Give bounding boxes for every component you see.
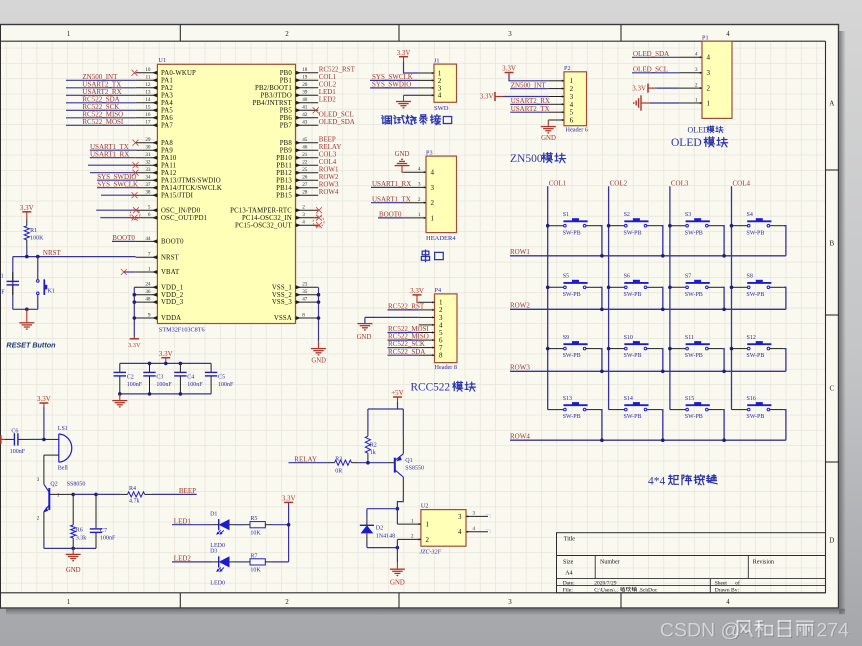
svg-text:U1: U1	[158, 57, 166, 64]
svg-text:PB1: PB1	[280, 77, 292, 84]
svg-text:U2: U2	[421, 503, 429, 510]
svg-text:P4: P4	[435, 287, 442, 294]
svg-text:C4: C4	[187, 375, 194, 381]
svg-text:PC13-TAMPER-RTC: PC13-TAMPER-RTC	[230, 207, 292, 214]
svg-text:Header 6: Header 6	[565, 127, 588, 134]
svg-text:2: 2	[285, 598, 289, 606]
svg-text:4: 4	[431, 169, 435, 177]
svg-text:OLED: OLED	[671, 137, 702, 149]
svg-text:S10: S10	[624, 335, 633, 341]
svg-text:4: 4	[302, 220, 305, 226]
svg-text:LS1: LS1	[58, 426, 68, 432]
svg-text:BOOT0: BOOT0	[161, 239, 184, 246]
svg-text:3: 3	[707, 69, 711, 77]
svg-text:10K: 10K	[250, 530, 261, 536]
svg-text:File:: File:	[563, 588, 574, 594]
svg-text:PA11: PA11	[161, 162, 176, 169]
svg-text:22: 22	[302, 160, 308, 166]
svg-text:PB0: PB0	[280, 70, 293, 77]
svg-text:P2: P2	[564, 65, 571, 72]
svg-text:3: 3	[458, 513, 462, 521]
svg-text:8: 8	[302, 312, 305, 318]
svg-text:C3: C3	[156, 375, 163, 381]
svg-text:GND: GND	[390, 580, 405, 587]
svg-text:PB14: PB14	[276, 185, 292, 192]
svg-text:SW-PB: SW-PB	[685, 292, 703, 298]
svg-text:USART1_TX: USART1_TX	[372, 195, 411, 203]
svg-text:A4: A4	[565, 571, 572, 577]
svg-text:PC15-OSC32_OUT: PC15-OSC32_OUT	[235, 222, 293, 229]
svg-text:2: 2	[707, 85, 711, 93]
svg-text:C1: C1	[0, 273, 4, 279]
svg-text:SW-PB: SW-PB	[746, 292, 764, 298]
svg-text:ROW4: ROW4	[510, 433, 530, 441]
svg-text:USART1_RX: USART1_RX	[372, 180, 411, 188]
svg-text:USART2_TX: USART2_TX	[511, 105, 550, 113]
svg-text:7: 7	[148, 252, 151, 258]
svg-text:42: 42	[302, 112, 308, 118]
svg-text:USART2_RX: USART2_RX	[511, 97, 550, 105]
svg-text:4: 4	[570, 101, 574, 109]
svg-text:VDD_3: VDD_3	[161, 299, 184, 306]
svg-text:45: 45	[302, 137, 308, 143]
svg-text:4: 4	[707, 54, 711, 62]
svg-text:BOOT0: BOOT0	[379, 211, 402, 219]
svg-text:GND: GND	[541, 135, 556, 142]
svg-text:46: 46	[302, 145, 308, 151]
svg-text:3: 3	[302, 212, 305, 218]
svg-text:VDDA: VDDA	[161, 315, 181, 322]
svg-text:C5: C5	[218, 375, 225, 381]
svg-text:3: 3	[431, 184, 435, 192]
svg-text:1: 1	[707, 99, 711, 107]
svg-text:1k: 1k	[370, 450, 376, 456]
svg-text:GND: GND	[357, 334, 372, 341]
svg-text:0R: 0R	[335, 468, 342, 474]
svg-text:13: 13	[145, 90, 151, 96]
svg-text:VSSA: VSSA	[274, 315, 292, 322]
svg-text:26: 26	[302, 175, 308, 181]
svg-text:OLED_SCL: OLED_SCL	[633, 65, 668, 73]
svg-text:D2: D2	[376, 525, 383, 531]
svg-text:2: 2	[285, 30, 289, 38]
svg-text:30: 30	[145, 145, 151, 151]
svg-text:18: 18	[302, 67, 308, 73]
svg-text:PA10: PA10	[161, 155, 177, 162]
svg-text:BEEP: BEEP	[179, 487, 196, 495]
svg-text:PB13: PB13	[276, 177, 292, 184]
svg-text:5: 5	[570, 109, 574, 117]
svg-text:25: 25	[302, 167, 308, 173]
svg-text:Bell: Bell	[58, 465, 68, 471]
svg-text:RC522_MOSI: RC522_MOSI	[82, 118, 124, 126]
svg-text:S3: S3	[685, 212, 691, 218]
svg-text:S13: S13	[563, 396, 572, 402]
svg-text:PB7: PB7	[280, 122, 293, 129]
svg-text:3.3k: 3.3k	[76, 535, 87, 541]
svg-text:+5V: +5V	[391, 389, 404, 397]
svg-text:C:\Users\..: C:\Users\..	[594, 588, 618, 594]
svg-text:15: 15	[145, 105, 151, 111]
svg-text:32: 32	[145, 160, 151, 166]
svg-text:3: 3	[570, 93, 574, 101]
svg-text:6: 6	[148, 212, 151, 218]
svg-text:PA4: PA4	[161, 100, 173, 107]
svg-text:S1: S1	[563, 212, 569, 218]
svg-text:of: of	[735, 580, 740, 587]
svg-text:29: 29	[145, 137, 151, 143]
svg-text:4: 4	[458, 528, 462, 536]
svg-text:3.3V: 3.3V	[159, 350, 173, 358]
svg-text:100nF: 100nF	[127, 382, 143, 388]
svg-text:PB8: PB8	[280, 140, 293, 147]
svg-text:44: 44	[145, 236, 151, 242]
svg-text:PB9: PB9	[280, 147, 293, 154]
svg-text:4.7k: 4.7k	[129, 498, 140, 504]
svg-text:Q2: Q2	[50, 481, 57, 487]
svg-text:S5: S5	[563, 274, 569, 280]
svg-text:SYS_SWCLK: SYS_SWCLK	[97, 180, 138, 188]
svg-text:NRST: NRST	[161, 254, 180, 261]
svg-text:100nF: 100nF	[187, 382, 203, 388]
svg-text:SW-PB: SW-PB	[685, 414, 703, 420]
svg-text:PB11: PB11	[276, 162, 291, 169]
svg-text:100nF: 100nF	[10, 449, 26, 455]
svg-text:SW-PB: SW-PB	[685, 230, 703, 236]
svg-text:C2: C2	[127, 375, 134, 381]
svg-text:S9: S9	[563, 335, 569, 341]
svg-text:VDD_1: VDD_1	[161, 284, 183, 291]
svg-text:S2: S2	[624, 212, 630, 218]
svg-text:J1: J1	[434, 57, 440, 64]
svg-text:COL2: COL2	[610, 179, 628, 187]
svg-text:2: 2	[302, 205, 305, 211]
svg-text:1: 1	[67, 30, 71, 38]
svg-text:23: 23	[302, 282, 308, 288]
svg-text:S15: S15	[685, 396, 694, 402]
svg-text:34: 34	[145, 175, 151, 181]
svg-text:3.3V: 3.3V	[502, 65, 516, 73]
svg-text:GND: GND	[395, 151, 410, 158]
svg-text:100K: 100K	[30, 236, 44, 242]
svg-text:PB4/JNTRST: PB4/JNTRST	[253, 100, 293, 107]
svg-text:1: 1	[431, 214, 435, 222]
svg-text:PB3/JTDO: PB3/JTDO	[260, 92, 291, 99]
svg-text:11: 11	[146, 75, 151, 81]
svg-text:D: D	[829, 536, 834, 544]
svg-text:PB10: PB10	[276, 155, 292, 162]
svg-text:43: 43	[302, 120, 308, 126]
svg-text:3.3V: 3.3V	[37, 395, 51, 403]
svg-text:SW-PB: SW-PB	[746, 353, 764, 359]
svg-text:3.3V: 3.3V	[20, 204, 34, 212]
svg-text:ZN500: ZN500	[510, 153, 543, 165]
svg-text:Date:: Date:	[563, 581, 575, 587]
svg-text:SS8050: SS8050	[67, 481, 86, 487]
svg-text:SW-PB: SW-PB	[563, 353, 581, 359]
svg-text:VSS_3: VSS_3	[272, 299, 292, 306]
svg-text:S14: S14	[624, 396, 633, 402]
svg-text:24: 24	[145, 282, 151, 288]
svg-text:RCC522: RCC522	[411, 382, 451, 394]
svg-text:6: 6	[570, 117, 574, 125]
svg-text:Drawn By:: Drawn By:	[715, 588, 740, 594]
svg-text:100nF: 100nF	[100, 535, 116, 541]
svg-text:OSC_IN/PD0: OSC_IN/PD0	[161, 207, 201, 214]
svg-text:41: 41	[302, 105, 308, 111]
svg-text:OLED_SDA: OLED_SDA	[319, 118, 355, 126]
svg-text:PA1: PA1	[161, 77, 173, 84]
svg-text:D3: D3	[210, 549, 217, 555]
svg-text:PC14-OSC32_IN: PC14-OSC32_IN	[242, 215, 292, 222]
svg-text:RC522_SDA: RC522_SDA	[388, 348, 425, 356]
svg-text:3: 3	[508, 598, 512, 606]
svg-text:274: 274	[817, 619, 850, 641]
svg-text:38: 38	[145, 190, 151, 196]
svg-text:R5: R5	[250, 516, 257, 522]
svg-text:1: 1	[67, 598, 71, 606]
svg-text:C7: C7	[100, 528, 107, 534]
svg-text:LED2: LED2	[319, 95, 337, 103]
svg-text:3.3V: 3.3V	[397, 49, 411, 57]
svg-text:31: 31	[145, 152, 151, 158]
svg-text:PA7: PA7	[161, 122, 173, 129]
svg-text:VSS_2: VSS_2	[272, 292, 292, 299]
svg-text:PA5: PA5	[161, 107, 173, 114]
svg-text:VSS_1: VSS_1	[272, 284, 292, 291]
svg-text:3.3V: 3.3V	[480, 93, 494, 101]
svg-text:R3: R3	[335, 457, 342, 463]
svg-text:PA3: PA3	[161, 92, 173, 99]
svg-text:Header 8: Header 8	[435, 364, 458, 371]
svg-text:20: 20	[302, 82, 308, 88]
svg-text:Title: Title	[564, 536, 575, 542]
svg-text:PA15/JTDI: PA15/JTDI	[161, 192, 194, 199]
svg-text:21: 21	[302, 152, 308, 158]
svg-text:PA0-WKUP: PA0-WKUP	[161, 70, 196, 77]
svg-text:100nF: 100nF	[218, 382, 234, 388]
svg-text:RC522_RST: RC522_RST	[388, 303, 425, 311]
svg-text:B: B	[829, 239, 834, 247]
svg-text:2: 2	[426, 536, 430, 544]
svg-text:SW-PB: SW-PB	[746, 414, 764, 420]
svg-text:LED0: LED0	[210, 580, 225, 586]
svg-text:RELAY: RELAY	[294, 455, 317, 463]
svg-text:3: 3	[508, 30, 512, 38]
svg-text:PA13/JTMS/SWDIO: PA13/JTMS/SWDIO	[161, 177, 221, 184]
svg-text:33: 33	[145, 167, 151, 173]
svg-text:A: A	[829, 99, 834, 107]
svg-text:ROW3: ROW3	[510, 364, 530, 372]
svg-text:2: 2	[431, 199, 435, 207]
svg-text:SW-PB: SW-PB	[563, 292, 581, 298]
svg-text:R7: R7	[250, 553, 257, 559]
svg-text:STM32F103C8T6: STM32F103C8T6	[159, 327, 205, 334]
svg-text:S16: S16	[747, 396, 756, 402]
svg-text:48: 48	[145, 297, 151, 303]
svg-text:12: 12	[145, 82, 151, 88]
svg-text:COL1: COL1	[549, 179, 567, 187]
svg-text:PB6: PB6	[280, 115, 293, 122]
svg-text:SW-PB: SW-PB	[746, 230, 764, 236]
svg-text:LED2: LED2	[174, 555, 192, 563]
svg-text:Size: Size	[563, 559, 574, 565]
svg-text:R6: R6	[76, 527, 83, 533]
svg-text:5: 5	[148, 205, 151, 211]
svg-text:4: 4	[726, 30, 730, 38]
svg-text:R4: R4	[129, 486, 136, 492]
svg-text:SS8550: SS8550	[405, 465, 424, 471]
svg-text:1: 1	[426, 521, 430, 529]
svg-text:27: 27	[302, 182, 308, 188]
svg-text:SW-PB: SW-PB	[685, 353, 703, 359]
svg-text:D1: D1	[210, 512, 217, 518]
svg-text:P3: P3	[426, 149, 433, 156]
svg-text:PB15: PB15	[276, 192, 292, 199]
svg-text:4*4: 4*4	[648, 475, 666, 487]
svg-text:S4: S4	[747, 212, 753, 218]
svg-text:OLED: OLED	[688, 125, 710, 134]
svg-text:SW-PB: SW-PB	[624, 353, 642, 359]
svg-text:S11: S11	[685, 335, 694, 341]
svg-text:K1: K1	[48, 288, 55, 294]
svg-text:28: 28	[302, 190, 308, 196]
svg-text:PB5: PB5	[280, 107, 293, 114]
svg-text:PA14/JTCK/SWCLK: PA14/JTCK/SWCLK	[161, 185, 222, 192]
svg-text:JZC-32F: JZC-32F	[420, 550, 442, 556]
svg-text:R1: R1	[30, 228, 37, 234]
svg-text:OLED_SDA: OLED_SDA	[633, 50, 669, 58]
svg-text:OSC_OUT/PD1: OSC_OUT/PD1	[161, 215, 207, 222]
svg-text:3.3V: 3.3V	[282, 495, 296, 503]
svg-text:SW-PB: SW-PB	[624, 292, 642, 298]
svg-text:ZN500_INT: ZN500_INT	[511, 81, 547, 89]
svg-text:2: 2	[570, 85, 574, 93]
svg-text:Sheet: Sheet	[715, 581, 728, 587]
svg-text:PB12: PB12	[276, 170, 292, 177]
svg-text:2020/7/29: 2020/7/29	[594, 581, 617, 587]
svg-text:NRST: NRST	[43, 249, 62, 257]
svg-text:ROW1: ROW1	[510, 248, 530, 256]
svg-text:P1: P1	[702, 35, 709, 42]
svg-text:3.3V: 3.3V	[410, 287, 424, 295]
svg-text:SYS_SWDIO: SYS_SWDIO	[372, 81, 411, 89]
svg-text:S12: S12	[747, 335, 756, 341]
svg-text:SW-PB: SW-PB	[563, 414, 581, 420]
svg-text:C: C	[829, 384, 834, 392]
svg-text:37: 37	[145, 182, 151, 188]
svg-text:VDD_2: VDD_2	[161, 292, 184, 299]
svg-text:1: 1	[570, 77, 574, 85]
svg-text:COL4: COL4	[733, 179, 751, 187]
svg-text:PA2: PA2	[161, 85, 173, 92]
svg-text:COL3: COL3	[671, 179, 689, 187]
svg-text:.SchDoc: .SchDoc	[639, 588, 658, 594]
svg-text:19: 19	[302, 75, 308, 81]
svg-text:S6: S6	[624, 274, 630, 280]
svg-text:PA9: PA9	[161, 147, 173, 154]
svg-text:36: 36	[145, 289, 151, 295]
svg-text:SWD: SWD	[434, 105, 449, 112]
svg-text:PA12: PA12	[161, 170, 177, 177]
svg-text:10K: 10K	[250, 568, 261, 574]
svg-text:ROW2: ROW2	[510, 302, 530, 310]
svg-text:GND: GND	[66, 567, 81, 574]
svg-text:BOOT0: BOOT0	[112, 234, 135, 242]
svg-text:SW-PB: SW-PB	[624, 414, 642, 420]
svg-text:RESET Button: RESET Button	[6, 341, 56, 350]
svg-text:C6: C6	[11, 428, 18, 434]
svg-text:47: 47	[302, 297, 308, 303]
svg-text:S7: S7	[685, 274, 691, 280]
svg-text:PB2/BOOT1: PB2/BOOT1	[255, 85, 292, 92]
svg-text:100nF: 100nF	[0, 289, 5, 295]
svg-text:10: 10	[145, 67, 151, 73]
svg-text:3.3V: 3.3V	[128, 342, 141, 349]
svg-text:8: 8	[439, 352, 443, 360]
svg-text:LED1: LED1	[174, 517, 192, 525]
svg-text:SW-PB: SW-PB	[624, 230, 642, 236]
svg-text:100nF: 100nF	[156, 382, 172, 388]
svg-text:CSDN @: CSDN @	[660, 619, 740, 641]
svg-text:Q1: Q1	[405, 458, 412, 464]
svg-text:40: 40	[302, 97, 308, 103]
svg-text:39: 39	[302, 90, 308, 96]
svg-text:16: 16	[145, 112, 151, 118]
svg-text:S8: S8	[747, 274, 753, 280]
svg-text:Revision: Revision	[753, 559, 774, 565]
svg-text:ROW4: ROW4	[319, 188, 339, 196]
svg-text:35: 35	[302, 289, 308, 295]
svg-text:4: 4	[726, 598, 730, 606]
svg-text:Number: Number	[600, 559, 620, 565]
svg-text:4: 4	[438, 92, 442, 100]
svg-text:1N4148: 1N4148	[376, 533, 395, 539]
svg-text:HEADER4: HEADER4	[426, 235, 456, 242]
svg-text:1: 1	[148, 266, 151, 272]
svg-text:SW-PB: SW-PB	[563, 230, 581, 236]
svg-text:17: 17	[145, 120, 151, 126]
svg-text:9: 9	[148, 312, 151, 318]
svg-text:3.3V: 3.3V	[632, 84, 646, 92]
svg-text:14: 14	[145, 97, 151, 103]
svg-text:PA6: PA6	[161, 115, 173, 122]
svg-text:GND: GND	[311, 357, 326, 364]
svg-text:R2: R2	[370, 442, 377, 448]
svg-text:PA8: PA8	[161, 140, 173, 147]
svg-text:USART1_RX: USART1_RX	[90, 150, 129, 158]
svg-text:VBAT: VBAT	[161, 269, 180, 276]
